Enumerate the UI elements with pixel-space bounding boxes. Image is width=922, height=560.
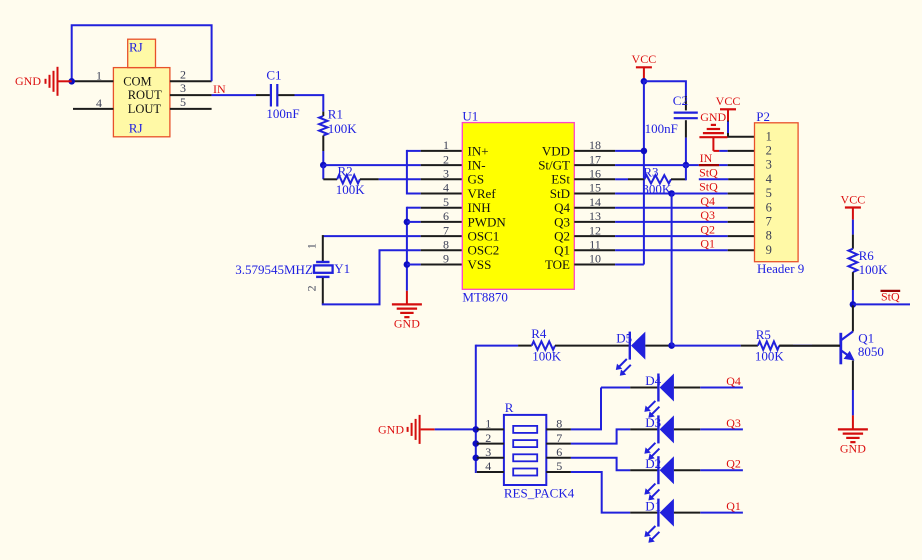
svg-text:IN: IN xyxy=(700,151,713,165)
svg-text:8: 8 xyxy=(443,238,449,252)
svg-text:RJ: RJ xyxy=(129,121,143,136)
svg-text:1: 1 xyxy=(443,138,449,152)
svg-text:GND: GND xyxy=(840,442,866,456)
svg-text:4: 4 xyxy=(96,96,102,110)
svg-text:GND: GND xyxy=(700,110,726,124)
svg-text:2: 2 xyxy=(766,144,772,158)
svg-text:4: 4 xyxy=(485,459,491,473)
svg-text:LOUT: LOUT xyxy=(128,102,162,116)
svg-text:TOE: TOE xyxy=(545,257,570,272)
svg-text:GS: GS xyxy=(468,172,485,187)
svg-text:OSC1: OSC1 xyxy=(468,229,500,244)
svg-text:GND: GND xyxy=(394,317,420,331)
svg-text:VSS: VSS xyxy=(468,257,492,272)
svg-text:3: 3 xyxy=(485,445,491,459)
svg-text:IN+: IN+ xyxy=(468,143,489,158)
svg-text:Q2: Q2 xyxy=(726,457,741,471)
svg-text:Y1: Y1 xyxy=(334,261,350,276)
svg-text:D3: D3 xyxy=(645,415,661,430)
svg-text:C1: C1 xyxy=(266,68,281,83)
svg-text:8: 8 xyxy=(766,229,772,243)
svg-text:100nF: 100nF xyxy=(645,121,678,136)
svg-text:5: 5 xyxy=(766,186,772,200)
svg-text:6: 6 xyxy=(556,445,562,459)
svg-text:2: 2 xyxy=(305,285,319,291)
svg-text:PWDN: PWDN xyxy=(468,214,507,229)
svg-text:RJ: RJ xyxy=(129,40,143,55)
svg-text:8050: 8050 xyxy=(858,344,884,359)
svg-text:Q4: Q4 xyxy=(554,200,570,215)
svg-text:Q3: Q3 xyxy=(700,208,715,222)
svg-text:COM: COM xyxy=(123,74,151,88)
svg-text:R1: R1 xyxy=(328,106,343,121)
svg-text:1: 1 xyxy=(305,243,319,249)
svg-text:R2: R2 xyxy=(338,164,353,179)
svg-text:100K: 100K xyxy=(328,121,358,136)
svg-text:2: 2 xyxy=(180,67,186,81)
svg-text:2: 2 xyxy=(443,152,449,166)
svg-text:Q2: Q2 xyxy=(700,222,715,236)
svg-text:Q1: Q1 xyxy=(554,243,570,258)
svg-text:8: 8 xyxy=(556,417,562,431)
svg-text:C2: C2 xyxy=(673,93,688,108)
svg-text:U1: U1 xyxy=(462,109,478,124)
svg-text:Q4: Q4 xyxy=(700,194,715,208)
svg-text:5: 5 xyxy=(556,459,562,473)
svg-text:GND: GND xyxy=(15,74,41,88)
svg-text:3.579545MHZ: 3.579545MHZ xyxy=(235,262,313,277)
svg-text:3: 3 xyxy=(180,81,186,95)
svg-text:5: 5 xyxy=(180,95,186,109)
svg-text:1: 1 xyxy=(766,129,772,143)
svg-text:ROUT: ROUT xyxy=(128,88,162,102)
svg-text:St/GT: St/GT xyxy=(538,158,570,173)
svg-text:Q4: Q4 xyxy=(726,374,741,388)
svg-text:VDD: VDD xyxy=(542,143,570,158)
svg-text:2: 2 xyxy=(485,431,491,445)
svg-text:VCC: VCC xyxy=(716,94,741,108)
svg-text:R3: R3 xyxy=(643,164,658,179)
svg-text:StQ: StQ xyxy=(699,180,718,194)
svg-text:Q1: Q1 xyxy=(726,499,741,513)
svg-text:6: 6 xyxy=(443,209,449,223)
svg-text:100K: 100K xyxy=(336,182,366,197)
svg-text:3: 3 xyxy=(766,158,772,172)
svg-text:INH: INH xyxy=(468,200,491,215)
svg-text:OSC2: OSC2 xyxy=(468,243,500,258)
svg-text:7: 7 xyxy=(766,215,772,229)
svg-text:StQ: StQ xyxy=(881,290,900,304)
svg-text:R4: R4 xyxy=(531,326,547,341)
svg-text:D4: D4 xyxy=(645,373,661,388)
svg-text:D1: D1 xyxy=(645,498,661,513)
svg-text:GND: GND xyxy=(378,423,404,437)
svg-text:Q3: Q3 xyxy=(726,416,741,430)
svg-text:Q1: Q1 xyxy=(700,237,715,251)
svg-text:100K: 100K xyxy=(532,349,562,364)
svg-text:6: 6 xyxy=(766,200,772,214)
svg-text:3: 3 xyxy=(443,167,449,181)
svg-text:MT8870: MT8870 xyxy=(462,289,508,304)
svg-text:StD: StD xyxy=(550,186,570,201)
svg-text:IN-: IN- xyxy=(468,158,486,173)
svg-text:IN: IN xyxy=(213,82,226,96)
svg-text:RES_PACK4: RES_PACK4 xyxy=(504,486,575,501)
svg-text:ESt: ESt xyxy=(551,172,570,187)
svg-text:4: 4 xyxy=(443,181,449,195)
svg-text:100K: 100K xyxy=(859,262,889,277)
svg-text:VCC: VCC xyxy=(841,192,866,206)
svg-text:100K: 100K xyxy=(755,349,785,364)
svg-text:Q2: Q2 xyxy=(554,229,570,244)
svg-text:VCC: VCC xyxy=(632,52,657,66)
svg-text:D2: D2 xyxy=(645,456,661,471)
svg-text:VRef: VRef xyxy=(468,186,497,201)
svg-text:5: 5 xyxy=(443,195,449,209)
svg-text:1: 1 xyxy=(485,417,491,431)
svg-text:R5: R5 xyxy=(756,327,771,342)
svg-text:9: 9 xyxy=(766,243,772,257)
svg-text:100nF: 100nF xyxy=(266,106,299,121)
svg-text:4: 4 xyxy=(766,172,773,186)
svg-text:D5: D5 xyxy=(616,331,632,346)
svg-text:R: R xyxy=(505,400,514,415)
svg-text:7: 7 xyxy=(443,223,449,237)
svg-text:StQ: StQ xyxy=(699,165,718,179)
svg-text:9: 9 xyxy=(443,252,449,266)
svg-text:Q3: Q3 xyxy=(554,214,570,229)
svg-text:P2: P2 xyxy=(756,109,770,124)
svg-text:1: 1 xyxy=(96,68,102,82)
svg-text:Header 9: Header 9 xyxy=(757,261,804,276)
svg-text:7: 7 xyxy=(556,431,562,445)
